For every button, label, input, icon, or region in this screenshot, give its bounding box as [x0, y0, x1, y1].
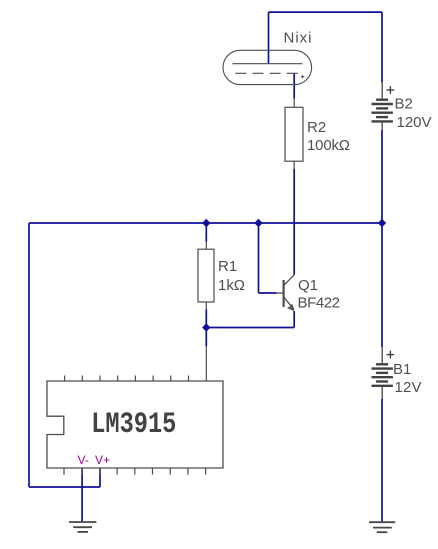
wire emitter horizontal	[206, 327, 294, 329]
resistor R2	[285, 99, 303, 169]
svg-text:V-: V-	[78, 453, 89, 467]
ground right	[369, 522, 395, 532]
wire right rail upper	[381, 12, 383, 82]
wire bottom horizontal to V+	[29, 486, 100, 488]
resistor R1	[198, 242, 214, 310]
IC U1 pin 9 tall (to R1)	[205, 346, 207, 381]
junction dot node N2	[254, 219, 262, 227]
wire base drop	[258, 223, 260, 293]
svg-text:Q1: Q1	[298, 277, 318, 294]
svg-text:B1: B1	[393, 361, 411, 378]
svg-text:R2: R2	[307, 119, 326, 136]
wire nixie anode drop	[268, 12, 270, 64]
wire V- to ground	[81, 469, 83, 522]
wire left rail	[28, 223, 30, 487]
svg-text:100kΩ: 100kΩ	[307, 137, 350, 154]
svg-text:LM3915: LM3915	[91, 409, 176, 442]
wire R1 bottom to IC pin	[205, 309, 207, 346]
svg-text:V+: V+	[95, 453, 110, 467]
nixie tube V1	[223, 50, 312, 84]
wire R1 top feed	[205, 223, 207, 242]
IC U1 bottom pin stubs	[64, 468, 206, 475]
battery B1	[372, 347, 395, 399]
wire mid horizontal rail	[29, 222, 382, 224]
svg-text:12V: 12V	[395, 379, 422, 396]
wire right rail lower	[381, 399, 383, 522]
IC U1 top pin stubs	[65, 376, 189, 382]
wire nixie cathode to R2	[293, 73, 295, 98]
battery B2	[372, 82, 395, 130]
wire R2 to Q1 collector	[293, 169, 295, 275]
wire emitter vertical	[293, 311, 295, 328]
wire top horizontal net	[269, 11, 383, 13]
junction dot node N4	[202, 323, 210, 331]
transistor Q1	[277, 275, 295, 311]
wire right rail middle	[381, 130, 383, 347]
wire V+ riser	[99, 469, 101, 487]
svg-text:R1: R1	[218, 258, 237, 275]
ground left	[69, 522, 97, 532]
IC U1 LM3915 body	[47, 381, 223, 468]
svg-text:B2: B2	[395, 96, 413, 113]
svg-text:Nixi: Nixi	[284, 30, 312, 47]
junction dot node N1	[202, 219, 210, 227]
svg-text:120V: 120V	[397, 114, 432, 131]
wire base horizontal	[259, 292, 277, 294]
junction dot node N3	[378, 219, 386, 227]
svg-text:1kΩ: 1kΩ	[218, 277, 245, 294]
svg-text:BF422: BF422	[298, 295, 341, 312]
